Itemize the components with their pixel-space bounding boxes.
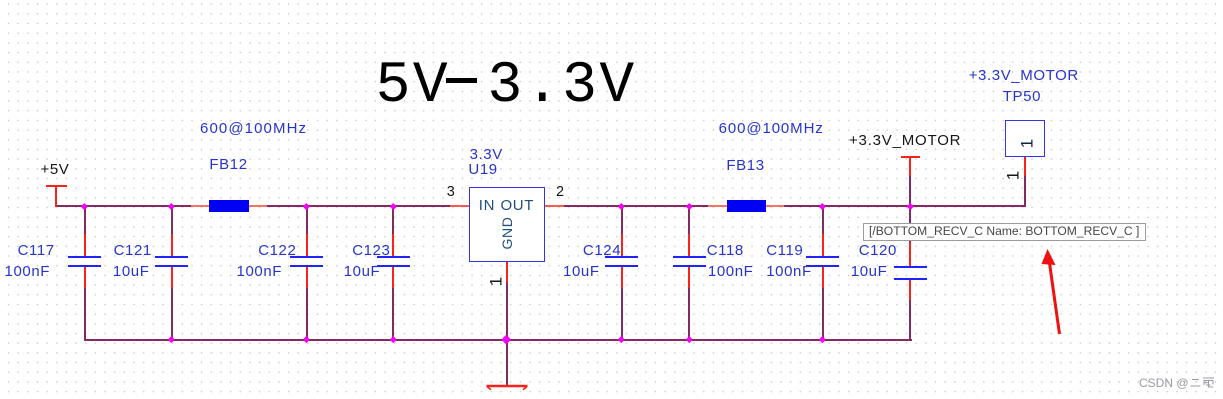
junction bottom rail C118: [686, 336, 692, 342]
title dash: [446, 78, 477, 83]
pin number 1: [1005, 166, 1022, 186]
reference label C121: [114, 243, 152, 258]
wire C121 branch lower: [171, 288, 173, 341]
capacitor C119: [822, 234, 824, 256]
pin lead TP50: [1024, 157, 1026, 176]
net label +3.3V_MOTOR: [969, 68, 1079, 83]
value label 3.3V: [470, 147, 503, 162]
junction top rail C123: [390, 203, 396, 209]
watermark CSDN: [1139, 376, 1215, 389]
pin number 1: [487, 271, 504, 291]
net label +5V: [41, 162, 70, 177]
wire C124 branch lower: [621, 288, 623, 341]
junction top rail C119: [819, 203, 825, 209]
pin lead U19 pin1 GND: [506, 262, 508, 283]
wire top rail: [55, 205, 1026, 207]
wire C120 branch upper: [909, 207, 911, 242]
capacitor C123: [392, 234, 394, 256]
wire C119 branch lower: [822, 288, 824, 341]
wire C120 branch lower: [909, 300, 911, 341]
value label 10uF: [563, 264, 600, 279]
ground: [482, 384, 532, 394]
wire C122 branch lower: [306, 288, 308, 341]
title 5V-3.3V: [376, 58, 637, 116]
ferrite bead FB12: [191, 205, 209, 207]
pin lead U19 pin2: [545, 205, 564, 207]
value label 600@100MHz: [200, 121, 307, 136]
wire C118 branch upper: [688, 207, 690, 234]
value label 10uF: [113, 264, 150, 279]
junction top rail C118: [686, 203, 692, 209]
value label 100nF: [5, 264, 51, 279]
annotation arrow: [1035, 245, 1071, 340]
junction top rail C122: [303, 203, 309, 209]
reference label C119: [766, 243, 803, 258]
wire TP50 riser: [1024, 176, 1026, 207]
junction top rail C124: [618, 203, 624, 209]
pin lead U19 pin3: [450, 205, 469, 207]
junction bottom rail C122: [303, 336, 309, 342]
capacitor C118: [688, 234, 690, 256]
wire +3.3V_MOTOR stub: [909, 176, 911, 207]
capacitor C124: [621, 234, 623, 256]
wire C117 branch upper: [84, 207, 86, 234]
reference label FB12: [209, 157, 247, 172]
junction bottom rail C121: [168, 336, 174, 342]
wire C119 branch upper: [822, 207, 824, 234]
wire bottom rail: [84, 339, 912, 341]
junction bottom rail C123: [390, 336, 396, 342]
junction top rail C117: [81, 203, 87, 209]
wire U19 GND to bottom rail: [506, 283, 508, 339]
capacitor C120: [909, 242, 911, 266]
tooltip BOTTOM_RECV_C: [863, 223, 1146, 241]
junction bottom rail GND: [502, 335, 511, 344]
value label 100nF: [237, 264, 283, 279]
reference label FB13: [726, 158, 764, 173]
wire ground drop: [506, 341, 508, 387]
capacitor C117: [84, 234, 86, 256]
reference label U19: [468, 162, 497, 177]
power symbol +3.3V_MOTOR: [901, 156, 920, 158]
pin number 2: [556, 185, 564, 200]
wire C118 branch lower: [688, 288, 690, 341]
reference label TP50: [1003, 89, 1041, 104]
reference label C118: [707, 243, 744, 258]
capacitor C121: [171, 234, 173, 256]
regulator U19: [469, 187, 545, 262]
junction bottom rail C119: [819, 336, 825, 342]
value label 10uF: [851, 264, 888, 279]
net label +3.3V_MOTOR: [849, 133, 961, 148]
pin name OUT: [501, 198, 534, 213]
wire C121 branch upper: [171, 207, 173, 234]
ferrite bead FB13: [708, 205, 727, 207]
value label 100nF: [708, 264, 754, 279]
wire C124 branch upper: [621, 207, 623, 234]
wire C122 branch upper: [306, 207, 308, 234]
pin name GND rotated: [500, 213, 514, 253]
pin number 3: [447, 185, 455, 200]
reference label C120: [859, 243, 897, 258]
power symbol +5V: [46, 185, 67, 187]
wire C123 branch upper: [392, 207, 394, 234]
test point TP50: [1005, 120, 1045, 158]
value label 10uF: [344, 264, 381, 279]
capacitor C122: [306, 234, 308, 256]
reference label C117: [18, 243, 55, 258]
wire C123 branch lower: [392, 288, 394, 341]
wire C117 branch lower: [84, 288, 86, 341]
reference label C124: [583, 243, 621, 258]
reference label C123: [352, 243, 390, 258]
reference label C122: [258, 243, 296, 258]
junction top rail C121: [168, 203, 174, 209]
junction bottom rail C124: [618, 336, 624, 342]
junction top rail +3.3V_MOTOR: [907, 203, 913, 209]
value label 100nF: [766, 264, 812, 279]
value label 600@100MHz: [719, 121, 824, 136]
pin name IN: [479, 198, 495, 213]
